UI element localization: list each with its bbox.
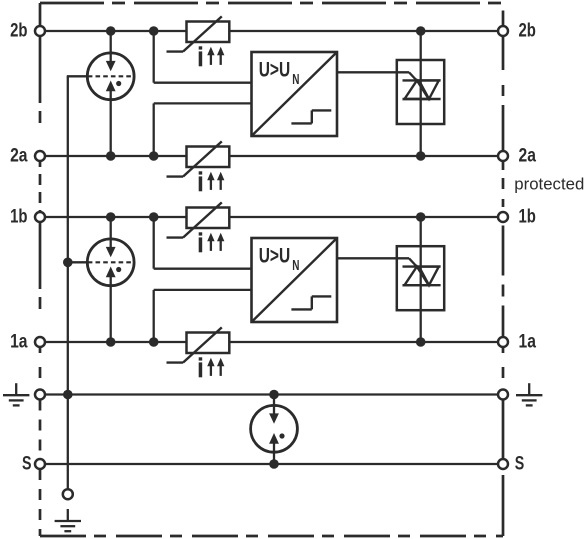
junction [106,26,116,36]
junction [416,337,426,347]
svg-text:2b: 2b [10,21,27,42]
varistor RV2 [167,141,230,191]
junction [106,337,116,347]
junction [106,151,116,161]
trigger comparator U1 (U&gt;UN) [252,52,338,136]
junction [149,337,159,347]
svg-text:1a: 1a [10,332,28,353]
svg-text:U>U: U>U [259,244,291,267]
wire earth line [45,393,498,395]
svg-text:protected: protected [514,175,584,194]
wire U2 output to suppressor [337,257,409,259]
svg-text:S: S [515,454,525,475]
enclosure border right [502,11,505,27]
svg-text:2b: 2b [519,21,536,42]
svg-text:U>U: U>U [259,58,291,81]
wire U1 output to suppressor [337,71,409,73]
wire line 2a [45,155,498,157]
wire suppressor column ch2 [420,31,422,156]
junction [269,390,279,400]
terminal 2b right [498,26,508,36]
wire left earth column x=68 [67,76,69,394]
wire gas-discharge-tube column (x=111) ch2 [110,31,112,156]
terminal 2b left [35,26,45,36]
terminal 2a right [498,151,508,161]
wire line 1a [45,341,498,343]
trigger comparator U2 (U&gt;UN) [252,238,338,322]
svg-text:2a: 2a [519,146,537,167]
wire line 2b [45,30,498,32]
junction [149,212,159,222]
svg-text:S: S [22,454,32,475]
junction [149,26,159,36]
terminal S left [35,459,45,469]
svg-text:N: N [292,258,299,274]
wire S line [45,463,498,465]
spark gap / gas discharge tube F1 [67,53,134,100]
wire suppressor column ch1 [420,217,422,342]
earth symbol bottom [55,509,81,531]
varistor RV1 [167,16,230,66]
varistor RV4 [167,327,230,377]
svg-text:1a: 1a [519,332,537,353]
wire gas-discharge-tube column (x=111) ch1 [110,217,112,342]
svg-text:1b: 1b [10,207,27,228]
terminal 1a left [35,337,45,347]
terminal earth left [35,390,45,400]
svg-text:2a: 2a [10,146,28,167]
junction [106,212,116,222]
terminal S right [498,459,508,469]
junction [416,151,426,161]
wire line 1b [45,216,498,218]
junction [63,390,73,400]
enclosure border top [40,2,503,5]
junction [416,212,426,222]
terminal 1b right [498,212,508,222]
junction [149,151,159,161]
varistor RV3 [167,202,230,252]
svg-text:1b: 1b [519,207,536,228]
enclosure border left [39,3,42,26]
spark gap / gas discharge tube F2 [67,239,134,286]
junction [63,258,73,268]
junction [269,459,279,469]
terminal 1b left [35,212,45,222]
wire comparator input stubs ch1 [154,268,252,270]
terminal 2a left [35,151,45,161]
earth symbol left [3,383,29,405]
wire comparator input column ch1 [153,217,155,269]
enclosure border bottom [40,535,503,538]
wire comparator input column ch2 [153,31,155,83]
suppressor diode D1 [397,60,444,124]
svg-text:N: N [292,72,299,88]
junction [416,26,426,36]
wire comparator input stubs ch2 [154,82,252,84]
suppressor diode D2 [397,246,444,310]
wire GDT3 column [273,395,275,465]
terminal 1a right [498,337,508,347]
terminal earth disconnect bottom [63,489,73,499]
spark gap / gas discharge tube F3 [251,405,298,452]
terminal earth right [498,390,508,400]
earth symbol right [516,383,542,405]
